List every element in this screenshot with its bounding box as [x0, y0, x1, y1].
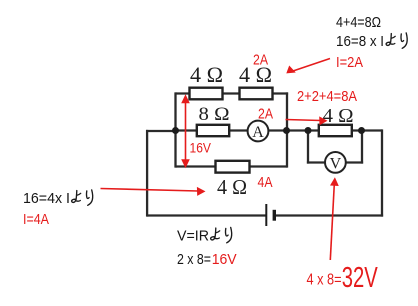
junction node: block right on middle branch	[283, 127, 290, 134]
resistor R5 4ohm (right, with voltmeter)	[319, 125, 352, 136]
wire: bottom from battery negative plate to right vertical	[274, 214, 383, 216]
svg-text:2+2+4=8A: 2+2+4=8A	[297, 88, 357, 105]
wire: block left vertical	[174, 92, 176, 167]
wire: block right vertical	[286, 92, 288, 167]
svg-text:4 x 8=: 4 x 8=	[307, 272, 342, 289]
red dimension arrow 16V (double-headed, inside block)	[181, 94, 190, 168]
svg-text:2A: 2A	[253, 52, 268, 69]
junction node: voltmeter branch right	[358, 127, 365, 134]
red arrow from I=2A to top-right resistor	[286, 59, 330, 74]
svg-text:32V: 32V	[342, 262, 378, 294]
svg-text:16V: 16V	[212, 251, 237, 268]
svg-text:4 Ω: 4 Ω	[190, 62, 223, 87]
wire: left feed from outer loop to parallel block	[146, 130, 177, 132]
wire: voltmeter branch right vertical	[361, 131, 363, 164]
svg-text:I=2A: I=2A	[336, 54, 363, 71]
wire: block bottom branch	[176, 165, 288, 167]
battery B1 short plate (-)	[273, 210, 276, 221]
svg-text:V=IR: V=IR	[177, 228, 209, 245]
battery B1 long plate (+)	[265, 204, 267, 226]
voltmeter U2 (V)	[325, 152, 346, 173]
red arrow from 4x8=32V up to voltmeter	[330, 177, 339, 260]
svg-text:A: A	[252, 124, 264, 141]
annotation: V=IR yori (black, below battery)	[177, 227, 232, 244]
svg-text:4+4=8Ω: 4+4=8Ω	[336, 14, 381, 31]
wire: outer left vertical	[146, 130, 148, 217]
junction node: block left on middle branch	[172, 127, 179, 134]
svg-text:4A: 4A	[258, 174, 273, 191]
annotation: 16=4x I yori (black, left)	[23, 190, 93, 207]
wire: voltmeter branch left vertical	[307, 131, 309, 164]
annotation: 16=8 x I yori (black, top right)	[336, 33, 407, 50]
wire: block top branch	[176, 92, 289, 94]
junction node: voltmeter branch left	[305, 127, 312, 134]
svg-text:16V: 16V	[190, 140, 212, 156]
resistor R1 4ohm (top-left)	[190, 88, 223, 100]
resistor R2 4ohm (top-right)	[240, 88, 273, 100]
svg-text:4 Ω: 4 Ω	[323, 105, 354, 127]
svg-text:2A: 2A	[258, 106, 273, 123]
svg-text:2 x 8=: 2 x 8=	[177, 251, 211, 268]
wire: middle branch through ammeter to right resistor and outer right	[176, 129, 383, 131]
wire: bottom from left vertical to battery positive plate	[147, 214, 266, 216]
svg-text:8 Ω: 8 Ω	[199, 104, 230, 125]
ammeter U1 (A)	[248, 121, 269, 142]
red arrow from 2A to right 4ohm resistor	[286, 116, 328, 125]
svg-text:16=4x I: 16=4x I	[23, 190, 70, 207]
wire: outer right vertical	[381, 129, 383, 216]
svg-text:16=8 x I: 16=8 x I	[336, 33, 384, 50]
resistor R4 4ohm (bottom)	[216, 161, 250, 173]
annotation: 2 x 8=16V (black + red)	[177, 251, 237, 268]
svg-text:I=4A: I=4A	[23, 211, 49, 228]
resistor R3 8ohm (middle)	[197, 125, 229, 136]
red arrow from 16=4xI to bottom resistor	[101, 187, 206, 196]
svg-text:V: V	[330, 155, 342, 172]
svg-text:4 Ω: 4 Ω	[217, 175, 247, 199]
wire: voltmeter branch bottom horizontal	[307, 161, 363, 163]
